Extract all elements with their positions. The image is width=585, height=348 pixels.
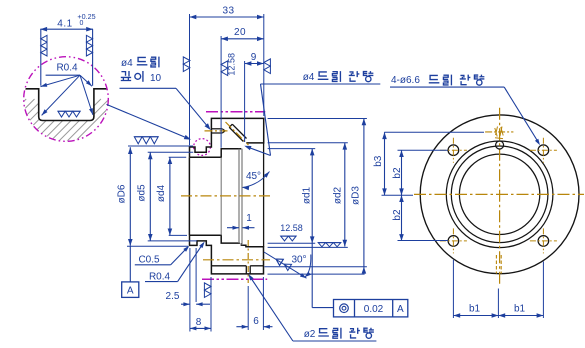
svg-text:øD6: øD6 [117,184,128,203]
svg-text:4.1: 4.1 [57,19,72,30]
svg-text:12.58: 12.58 [280,223,303,233]
svg-text:b3: b3 [373,155,384,167]
svg-text:4-ø6.6: 4-ø6.6 [391,75,420,86]
svg-text:b2: b2 [392,209,403,221]
svg-text:9: 9 [251,52,257,63]
svg-text:45°: 45° [246,171,261,182]
svg-text:R0.4: R0.4 [149,272,171,283]
svg-text:ø4: ø4 [121,58,133,69]
svg-text:20: 20 [234,27,246,38]
svg-text:ø4: ø4 [303,72,315,83]
svg-text:C0.5: C0.5 [138,255,160,266]
svg-text:A: A [127,285,134,296]
svg-text:1: 1 [246,213,252,224]
svg-text:b1: b1 [514,304,526,315]
svg-text:2.5: 2.5 [166,291,180,302]
svg-text:ød2: ød2 [332,186,343,204]
svg-text:ø2: ø2 [304,329,316,340]
svg-text:b2: b2 [392,167,403,179]
svg-text:10: 10 [150,73,162,84]
svg-text:øD3: øD3 [351,186,362,205]
svg-text:ød1: ød1 [302,186,313,204]
svg-text:33: 33 [222,6,234,17]
svg-text:R0.4: R0.4 [56,63,78,74]
svg-text:6: 6 [253,316,259,327]
svg-text:ød5: ød5 [137,184,148,202]
svg-text:ød4: ød4 [156,184,167,202]
svg-text:A: A [397,304,404,315]
svg-text:8: 8 [196,317,202,328]
svg-text:0: 0 [80,20,84,27]
svg-text:30°: 30° [291,255,306,266]
svg-text:0.02: 0.02 [364,304,384,315]
svg-text:b1: b1 [469,304,481,315]
